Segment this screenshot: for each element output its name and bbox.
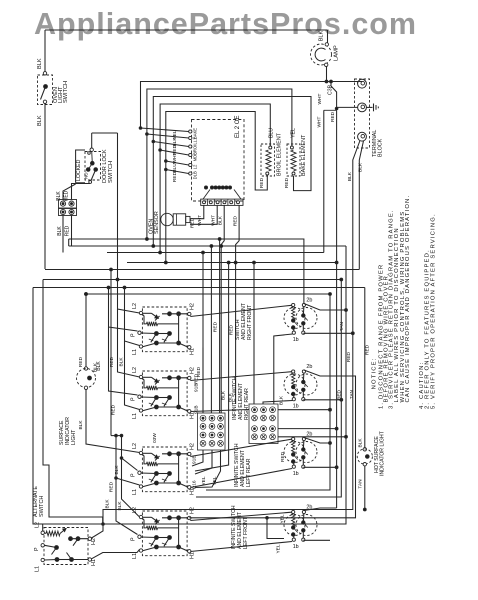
svg-text:1b: 1b [293,471,299,477]
grid B right wires [278,409,330,411]
wire left drop [44,30,46,72]
svg-text:SWITCH: SWITCH [39,496,45,517]
svg-text:L1: L1 [35,566,41,572]
wire door-lock feed [92,132,118,134]
svg-text:LEFT FRONT: LEFT FRONT [243,516,249,549]
svg-text:SENSOR: SENSOR [154,211,160,234]
svg-text:BLK: BLK [114,465,120,475]
svg-text:BLK: BLK [358,162,364,172]
wire alt H2 out [92,524,104,538]
infinite switch right rear [142,371,187,416]
svg-text:BLK: BLK [228,392,234,402]
svg-text:L2: L2 [132,443,138,449]
svg-text:YEL: YEL [201,476,207,485]
wire elem4 2b [304,508,337,511]
svg-text:1b: 1b [293,337,299,343]
svg-text:YEL: YEL [291,128,297,138]
wire J2 down [62,216,64,253]
oven control EOC [192,120,245,202]
svg-text:RED: RED [111,404,117,415]
svg-text:WHT: WHT [317,93,323,104]
wire elem1 bl to gridB [274,334,293,404]
wire loop2 yel [147,89,292,146]
svg-text:RED: RED [346,351,352,362]
svg-text:RED: RED [65,225,71,236]
svg-text:P: P [131,473,137,477]
hot surface indicator light [363,448,366,451]
wire right vertical tan1 [43,246,346,524]
wire left vertical C [159,150,161,253]
svg-text:H1: H1 [190,552,196,559]
svg-text:5. VERIFY PROPER OPERATION AFT: 5. VERIFY PROPER OPERATION AFTER SERVICI… [430,213,436,409]
svg-text:INDICATOR LIGHT: INDICATOR LIGHT [379,430,385,476]
svg-text:LAMP: LAMP [334,45,340,61]
bus W1 [45,269,359,271]
svg-text:L1: L1 [193,137,198,142]
wire feed sw1 L2 [118,133,140,313]
svg-text:RED: RED [196,366,202,377]
junction dots bus [116,278,119,281]
wire T3 BLK pair [353,141,360,343]
svg-text:RED: RED [284,177,290,188]
svg-text:BLK: BLK [37,115,43,126]
wire below oven light switch [44,104,46,270]
svg-text:BLK: BLK [221,390,227,400]
wire feed sw2 L2 [118,309,140,377]
wire EOC RED down [236,205,240,404]
wire right vertical 330 [206,294,330,490]
oven lamp [311,44,332,65]
wire C3B to T1 [327,81,358,83]
svg-text:BLK: BLK [93,362,99,372]
svg-text:SWITCH: SWITCH [63,81,69,103]
oven sensor [161,213,173,225]
svg-text:91B: 91B [192,455,198,464]
EOC bottom connector [203,190,210,200]
wire elem2 2b [189,370,355,518]
svg-text:1b: 1b [293,544,299,550]
wire mid vertical 1 [202,253,204,414]
wire elem2 1b [303,399,341,401]
svg-text:BROIL ELEMENT: BROIL ELEMENT [277,132,283,176]
wire elem2 bl to gridB [263,401,292,405]
svg-text:RED: RED [213,321,219,332]
svg-text:NOTICE:: NOTICE: [372,357,378,389]
terminal block [355,79,370,148]
svg-text:BLK: BLK [119,357,125,367]
wire door lock to plug [72,184,91,200]
ground [366,106,372,108]
svg-text:P: P [131,537,137,541]
wire feed sw2 P [109,327,138,395]
svg-text:H1: H1 [190,348,196,355]
svg-text:91B: 91B [194,383,200,392]
surface indicator light [85,294,87,367]
svg-text:RED: RED [330,111,336,122]
wire lamp to C3B junction [326,67,328,82]
svg-text:BLOCK: BLOCK [378,138,384,157]
svg-text:H2: H2 [190,303,196,310]
svg-text:BLK: BLK [218,215,224,225]
svg-text:TAN: TAN [358,479,364,489]
svg-text:RED: RED [78,356,84,367]
svg-text:BLK: BLK [347,171,353,181]
svg-text:RED: RED [259,177,265,188]
svg-text:LEFT REAR: LEFT REAR [246,458,252,487]
grid A bottom wires [192,450,203,466]
svg-text:P: P [131,397,137,401]
svg-text:BLK: BLK [57,226,63,236]
wire mid vertical 4 [195,263,229,472]
infinite switch left front [142,511,187,556]
svg-text:YEL: YEL [280,514,286,523]
svg-text:YEL: YEL [212,476,218,485]
svg-text:AppliancePartsPros.com: AppliancePartsPros.com [34,7,417,41]
svg-text:RED: RED [233,215,239,226]
wire elem3 1b [303,466,336,468]
svg-text:LIGHT: LIGHT [71,429,77,445]
infinite switch right front [142,307,187,352]
bus U5 [127,262,337,264]
svg-text:BLK: BLK [105,499,111,509]
svg-text:WHT: WHT [172,152,178,163]
svg-text:BAKE ELEMENT: BAKE ELEMENT [301,134,307,176]
svg-text:RED: RED [280,451,286,462]
svg-text:CAN CAUSE IMPROPER AND DANGERO: CAN CAUSE IMPROPER AND DANGEROUS OPERATI… [405,195,411,403]
wire mid vertical 2 [210,246,212,413]
infinite switch left rear [142,447,187,492]
svg-text:L1: L1 [132,413,138,419]
svg-text:H2: H2 [190,507,196,514]
svg-text:2b: 2b [306,298,312,304]
door lock switch [91,133,93,148]
svg-text:WHT: WHT [211,215,217,226]
svg-text:P: P [131,333,137,337]
EOC pin row [211,186,214,189]
wire right vertical 341 [196,280,341,498]
svg-text:TAN: TAN [339,321,345,331]
svg-text:BLK: BLK [37,58,43,69]
wire right vertical 336 [336,263,338,509]
surface element right rear [284,374,305,395]
svg-text:H1: H1 [91,559,97,566]
wire WHT down-left [323,110,325,252]
svg-text:P: P [34,547,40,551]
svg-text:RED: RED [109,356,115,367]
surface element right front [284,308,305,329]
svg-text:BLU: BLU [269,128,275,138]
wire gridB feeds [253,263,255,405]
wire stubs to EOC terminals [141,128,189,132]
bus W4 surface light [86,293,330,295]
wire lamp drop [327,30,329,43]
wire feed sw3 sw4 [111,435,122,437]
svg-text:SWITCH: SWITCH [108,161,114,183]
wire sensor to EOC [190,205,204,218]
svg-text:H2: H2 [190,443,196,450]
svg-text:WHT: WHT [197,215,203,226]
svg-text:EL 2 OE: EL 2 OE [235,116,241,138]
wire left vertical A [146,134,148,239]
svg-text:L1: L1 [132,553,138,559]
wire feed sw1 P [109,288,138,332]
bus U3 [107,252,324,254]
oven light switch [43,72,46,75]
wire sw-elem links [190,305,291,316]
wire T2 link [331,82,358,108]
wire elem1 2b [304,304,346,311]
svg-text:L1: L1 [132,489,138,495]
wire elem4 1b [303,539,330,541]
svg-text:BLK: BLK [358,438,364,448]
connector grid B [249,404,278,444]
connector grid A [198,413,226,450]
surface element left front [284,515,305,536]
wire feed sw2 L1 [125,341,140,410]
svg-text:1b: 1b [293,404,299,410]
wire elem3 2b [304,438,330,444]
svg-text:BLK: BLK [78,420,84,430]
wire right vertical red-far [364,288,366,449]
svg-text:RED: RED [365,344,371,355]
broil element [261,144,275,176]
wire left vertical B [152,142,154,247]
svg-text:DLB: DLB [193,171,198,179]
wire left vertical D [165,161,167,263]
wire loop3 [153,97,311,191]
svg-text:WHT: WHT [317,116,323,127]
svg-text:H2: H2 [190,367,196,374]
svg-text:YEL: YEL [276,544,282,553]
svg-text:2b: 2b [306,364,312,370]
svg-text:LOCKED: LOCKED [76,159,82,181]
wire RED down-left [336,110,338,262]
bus U1 [69,239,304,304]
svg-text:BAKE: BAKE [193,128,198,139]
wire top border L1 [45,29,328,31]
svg-text:RED: RED [172,171,178,182]
surface element left rear [284,442,305,463]
alternate switch [44,528,88,565]
wire loop L1 top [141,82,363,129]
wire loop4 blu [160,104,270,150]
wire mid vertical 3 [219,239,221,413]
svg-text:RED: RED [109,481,115,492]
bake element [287,144,300,176]
svg-text:BLK: BLK [319,30,325,41]
svg-text:L1: L1 [132,349,138,355]
svg-text:MDL: MDL [193,152,198,162]
bus U2 [68,239,70,246]
bus W2 [43,279,341,281]
svg-text:BLK: BLK [279,395,285,405]
wire right vertical blk-t3a [103,342,353,524]
svg-text:TAN: TAN [349,389,355,399]
wire EOC BLK down [221,205,224,413]
bus W3 [33,287,365,289]
wire loop5 [166,112,267,191]
svg-text:L2: L2 [35,522,41,528]
wire feed sw1 L1 [125,288,140,346]
wire alt H1 out [92,550,140,559]
svg-text:BLU: BLU [172,163,178,173]
svg-text:L2: L2 [193,164,198,169]
connector plug J2 [59,209,77,216]
wire elem1 1b [303,332,353,334]
svg-text:L2: L2 [132,367,138,373]
svg-text:03W: 03W [152,433,158,443]
svg-text:L2: L2 [132,303,138,309]
svg-text:NO: NO [84,172,89,179]
svg-text:H2: H2 [91,538,97,545]
svg-text:RED: RED [229,324,235,335]
